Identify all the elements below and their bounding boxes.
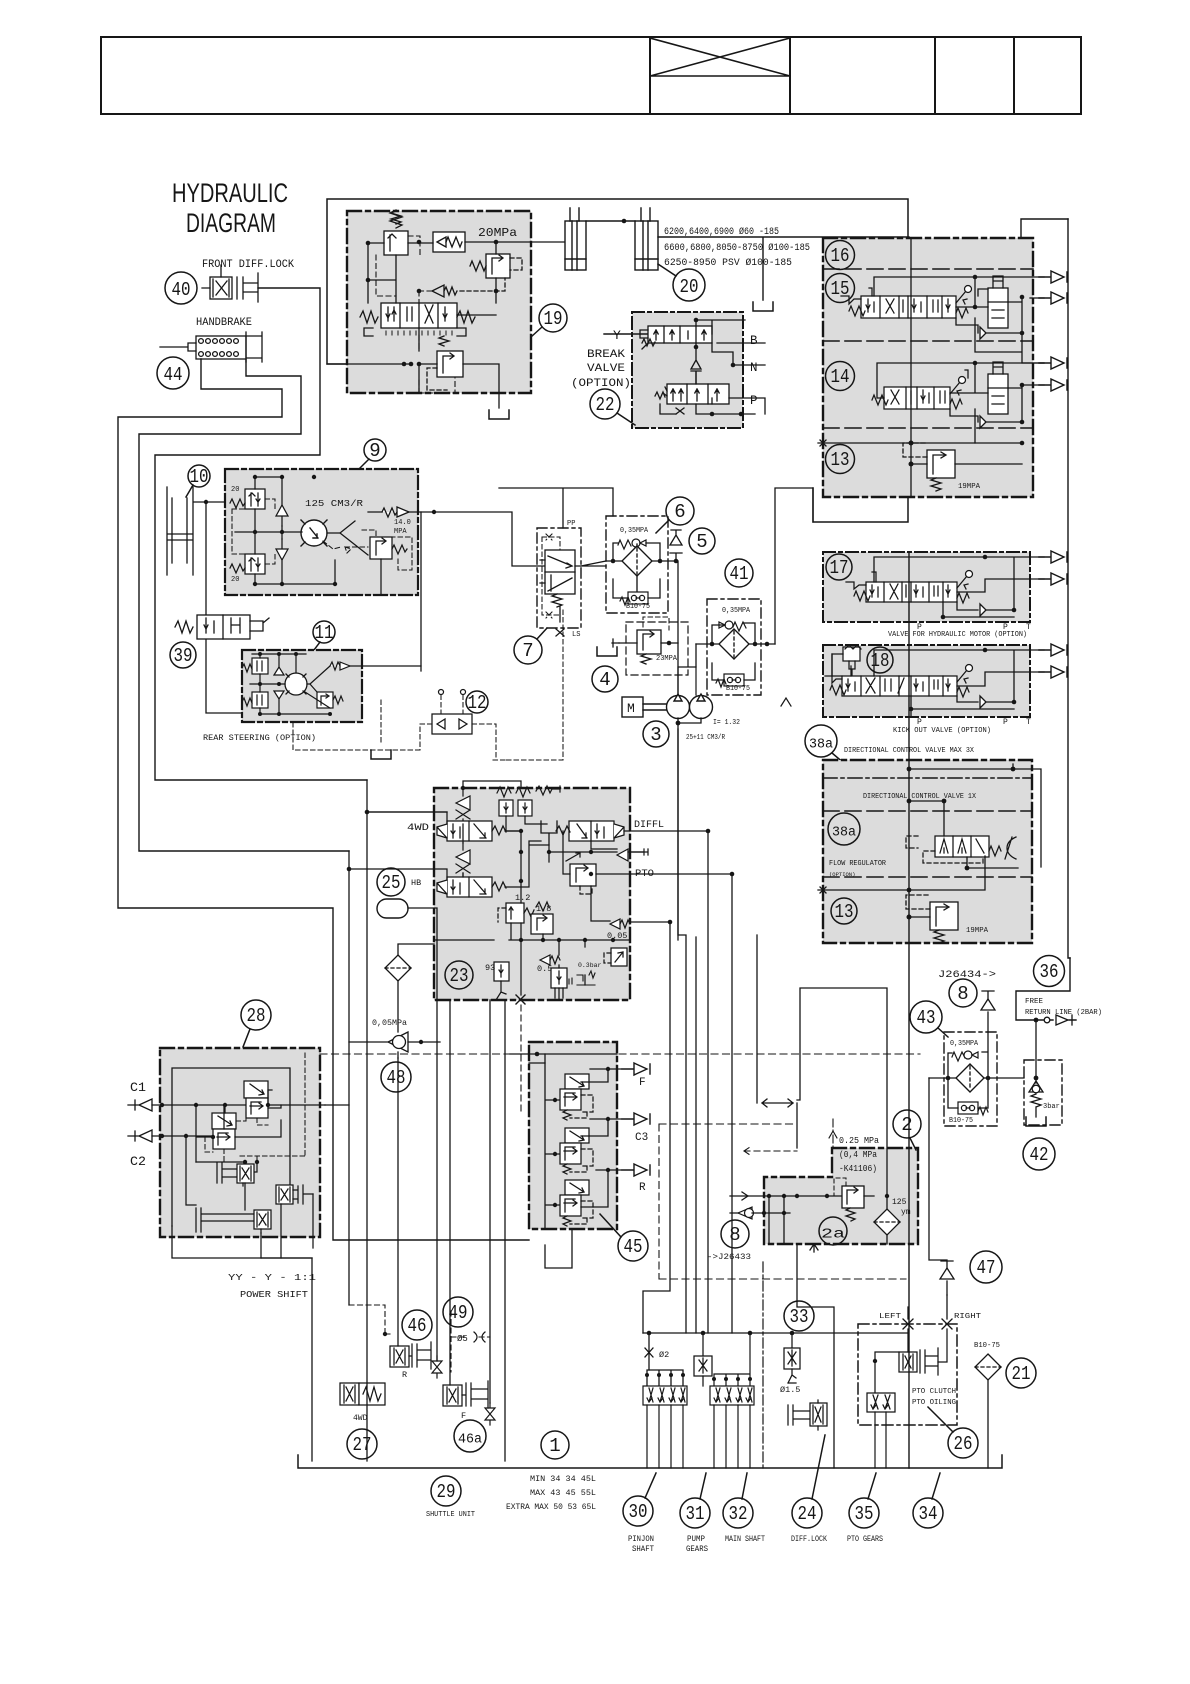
valve 1.2 xyxy=(498,903,534,923)
svg-text:47: 47 xyxy=(977,1257,996,1279)
steering pump circle in 9 xyxy=(301,520,327,546)
dashed divider 2 xyxy=(823,876,1032,878)
relief valve 13 lower xyxy=(906,895,958,943)
filter diamond left of 23 xyxy=(385,944,434,1032)
dashed arrow left xyxy=(744,1147,797,1155)
DIFFL valve xyxy=(556,821,624,841)
pto two clutch xyxy=(867,1393,895,1412)
circle 34 xyxy=(913,1473,943,1528)
label FLOW REGULATOR xyxy=(829,860,886,878)
divider dashed lines xyxy=(823,269,1033,428)
dashed rail from 28 to right xyxy=(320,1053,920,1055)
dashed divider xyxy=(823,810,1032,812)
mid tank in 23 xyxy=(530,821,557,845)
circle 10 with leader xyxy=(186,465,210,497)
solenoid F module xyxy=(443,1381,488,1408)
filter box 43 xyxy=(944,1032,997,1126)
svg-text:PTO CLUTCH: PTO CLUTCH xyxy=(912,1388,956,1396)
pinjon clutch group xyxy=(643,1386,687,1405)
priority valve 7 xyxy=(540,550,575,622)
labels PTO CLUTCH OILING xyxy=(912,1388,956,1407)
solenoid R module xyxy=(390,1342,431,1369)
circle 1 xyxy=(541,1431,569,1459)
gray box 16/15/14/13 xyxy=(823,238,1033,497)
gray big box xyxy=(823,760,1032,943)
eye check 0,05MPa xyxy=(349,1032,440,1058)
free return port xyxy=(1044,1015,1072,1025)
circle 3 xyxy=(643,721,669,747)
left rail in 45 xyxy=(545,1054,572,1268)
pump suction wires xyxy=(678,561,701,940)
circle 38a upper xyxy=(805,725,858,775)
up arrow below 2a xyxy=(810,1244,818,1252)
svg-text:SHAFT: SHAFT xyxy=(632,1545,654,1554)
svg-text:MAX 43 45 55L: MAX 43 45 55L xyxy=(530,1488,596,1498)
junction dots in 23 xyxy=(461,786,615,942)
svg-text:17: 17 xyxy=(830,557,849,579)
valve 1.8 xyxy=(531,902,553,934)
svg-text:PUMP: PUMP xyxy=(687,1535,705,1544)
port C2 xyxy=(128,1130,152,1142)
f feed down xyxy=(449,1000,451,1385)
svg-text:29: 29 xyxy=(437,1481,456,1503)
line 696 xyxy=(695,937,697,1333)
filter diamond 2a xyxy=(874,1209,900,1235)
circle 11 with leader xyxy=(313,621,335,650)
svg-text:7: 7 xyxy=(522,640,533,662)
inner white frame xyxy=(172,1068,290,1226)
svg-text:0.5: 0.5 xyxy=(537,964,552,974)
wire power shift down xyxy=(261,1258,312,1461)
svg-text:27: 27 xyxy=(353,1434,372,1456)
svg-text:6250-8950 PSV Ø100-185: 6250-8950 PSV Ø100-185 xyxy=(664,257,792,268)
check 0.05 xyxy=(610,919,630,929)
relief right in 9 xyxy=(370,537,407,559)
svg-text:2: 2 xyxy=(901,1114,912,1136)
svg-text:Y: Y xyxy=(613,328,621,343)
circle 15 xyxy=(826,274,855,303)
wire port2 xyxy=(1030,297,1044,299)
svg-text:125 CM3/R: 125 CM3/R xyxy=(305,499,364,509)
oil volume table xyxy=(506,1474,596,1512)
svg-text:PTO GEARS: PTO GEARS xyxy=(847,1535,883,1544)
svg-text:6: 6 xyxy=(674,501,685,523)
svg-text:0.25 MPa: 0.25 MPa xyxy=(839,1136,880,1146)
tandem pump circles xyxy=(667,667,713,719)
gray box 23 xyxy=(434,788,630,1000)
priority valve 7 dash-dot box xyxy=(537,528,581,628)
svg-text:35: 35 xyxy=(855,1503,874,1525)
module F xyxy=(560,1074,593,1120)
junction dots 15 xyxy=(973,275,1025,336)
svg-text:33: 33 xyxy=(790,1306,809,1328)
svg-text:3: 3 xyxy=(650,724,661,746)
circle 49 xyxy=(443,1297,473,1327)
title block frame xyxy=(101,37,1081,114)
svg-text:F: F xyxy=(461,1411,466,1421)
junction dots box 11 xyxy=(258,652,332,716)
labels F C3 R xyxy=(635,1077,648,1194)
X mark at bottom border xyxy=(516,995,525,1004)
front diff lock actuator xyxy=(202,265,258,302)
main shaft clutch group xyxy=(714,1333,750,1386)
bowtie plug F xyxy=(485,1403,495,1425)
small check right xyxy=(617,849,644,861)
main directional valve 19 xyxy=(360,303,475,336)
check 0.5 xyxy=(540,955,560,965)
junction dots 28 xyxy=(160,1103,270,1164)
circle 8 upper xyxy=(949,979,977,1007)
svg-text:39: 39 xyxy=(174,645,193,667)
wire front diff lock to nested route 3 xyxy=(155,288,367,780)
svg-text:HB: HB xyxy=(411,878,421,888)
pilot cylinder 14 xyxy=(988,362,1008,414)
svg-text:20: 20 xyxy=(231,576,239,584)
circle 38a lower xyxy=(828,813,860,845)
svg-text:I= 1.32: I= 1.32 xyxy=(713,719,740,727)
wires section 14 xyxy=(877,363,1044,443)
circle 19 with leader xyxy=(531,304,567,337)
svg-text:34: 34 xyxy=(919,1503,938,1525)
feed 505 down xyxy=(504,1000,506,1461)
svg-text:N: N xyxy=(750,361,758,375)
circle 21 xyxy=(1006,1358,1036,1388)
transmission bottom line xyxy=(298,1455,1002,1468)
relief valve upper-left in 19 xyxy=(384,210,408,255)
dashed pilots valve 7 xyxy=(542,534,563,632)
svg-text:19MPA: 19MPA xyxy=(958,483,980,491)
circle 25 xyxy=(377,868,405,896)
port arrows 15 xyxy=(1039,271,1067,283)
svg-text:125: 125 xyxy=(892,1198,907,1207)
bowtie plug R xyxy=(432,1356,442,1378)
svg-text:F: F xyxy=(639,1077,646,1089)
orifice O2 feed xyxy=(645,1333,683,1386)
tank 3bar xyxy=(1026,1117,1046,1126)
svg-text:38a: 38a xyxy=(832,826,856,841)
motor M box xyxy=(622,697,667,717)
cylinder spec text xyxy=(664,226,810,268)
wires section 17 xyxy=(874,557,1044,617)
pilot dashed wires box 19 xyxy=(376,236,455,393)
circle 22 with leader xyxy=(590,389,635,425)
junction dots 14 xyxy=(973,361,1025,425)
directional valve 14 xyxy=(872,370,968,409)
svg-text:FLOW REGULATOR: FLOW REGULATOR xyxy=(829,860,886,868)
port wires F C3 R xyxy=(581,1069,621,1207)
circle 23 xyxy=(445,961,473,989)
svg-text:23MPA: 23MPA xyxy=(656,655,677,663)
svg-text:DIFF.LOCK: DIFF.LOCK xyxy=(791,1535,827,1544)
relief upper in 9 xyxy=(230,489,265,509)
L3 vertical continuation xyxy=(367,780,447,1461)
svg-text:21: 21 xyxy=(1012,1363,1031,1385)
circle 24 xyxy=(792,1435,825,1528)
svg-text:38a: 38a xyxy=(809,738,833,753)
svg-text:10: 10 xyxy=(190,466,209,488)
double arrow xyxy=(762,1099,797,1148)
svg-text:93: 93 xyxy=(485,963,495,973)
svg-text:26: 26 xyxy=(954,1433,973,1455)
svg-text:FREE: FREE xyxy=(1025,998,1043,1006)
svg-text:20: 20 xyxy=(231,486,239,494)
circle 35 xyxy=(849,1473,879,1528)
orifice 05 symbol xyxy=(474,1332,485,1342)
svg-text:P: P xyxy=(917,718,922,727)
0.05 line down xyxy=(643,921,670,1333)
wires in box 9 xyxy=(235,477,382,595)
svg-text:MAIN SHAFT: MAIN SHAFT xyxy=(725,1535,765,1544)
svg-text:FRONT DIFF.LOCK: FRONT DIFF.LOCK xyxy=(202,259,294,271)
svg-text:P: P xyxy=(750,394,758,408)
svg-text:1.2: 1.2 xyxy=(515,893,530,903)
svg-text:45: 45 xyxy=(624,1236,643,1258)
svg-text:15: 15 xyxy=(831,278,850,300)
dashed pilots 28 xyxy=(205,1053,305,1162)
dashed LS line from 7 down-left xyxy=(490,632,563,760)
svg-text:C1: C1 xyxy=(130,1081,146,1095)
svg-text:0.3bar: 0.3bar xyxy=(578,962,602,969)
wires filter 41 xyxy=(696,623,775,680)
svg-text:DIFFL: DIFFL xyxy=(634,820,664,831)
port arrows 14 xyxy=(1039,357,1067,369)
svg-text:0,05MPa: 0,05MPa xyxy=(372,1018,407,1028)
module R xyxy=(560,1180,593,1226)
circle 30 xyxy=(623,1473,656,1526)
circle 46a xyxy=(454,1420,486,1452)
dash-dot pilot above 2a xyxy=(829,1119,837,1148)
dots junctions long wires xyxy=(347,641,735,925)
X cut marks xyxy=(903,1295,952,1329)
svg-text:31: 31 xyxy=(686,1503,705,1525)
svg-text:T: T xyxy=(1026,718,1031,727)
top pilot caps on box 23 xyxy=(497,786,560,816)
directional valve 15 xyxy=(841,286,972,319)
wire cylinder to valve 39 xyxy=(206,502,252,713)
X mark below valve 7 xyxy=(556,629,564,636)
svg-text:B10-75: B10-75 xyxy=(949,1117,973,1125)
steering cylinder 10 xyxy=(167,487,225,575)
svg-text:REAR STEERING (OPTION): REAR STEERING (OPTION) xyxy=(203,733,316,743)
svg-text:BREAK: BREAK xyxy=(587,349,625,361)
C2 rail xyxy=(152,1135,215,1137)
svg-text:PTO OILING: PTO OILING xyxy=(912,1399,956,1407)
circle 44 xyxy=(157,357,189,389)
port arrows F C3 R xyxy=(622,1063,650,1075)
directional valve 17 xyxy=(846,571,973,604)
check cones in 11 xyxy=(274,667,284,699)
gray box 22 xyxy=(632,312,743,428)
svg-text:20: 20 xyxy=(680,276,699,298)
circle 28 with leader xyxy=(241,1000,271,1047)
module C3 xyxy=(560,1128,593,1174)
circle 8 lower xyxy=(721,1220,749,1248)
port labels B N P xyxy=(750,334,758,408)
diamond line down to R xyxy=(397,1058,399,1346)
circle 31 xyxy=(680,1473,710,1528)
svg-text:VALVE: VALVE xyxy=(587,363,625,375)
svg-text:YY - Y - 1:1: YY - Y - 1:1 xyxy=(228,1272,316,1283)
supply arrow into 2a xyxy=(730,1192,842,1200)
manifold feed line xyxy=(643,1332,908,1334)
diffl line down xyxy=(630,831,708,1333)
svg-text:PP: PP xyxy=(567,520,575,528)
clutch actuator 1 xyxy=(217,1161,254,1186)
flow regulator valve 38a xyxy=(906,836,1016,863)
svg-text:40: 40 xyxy=(172,279,191,301)
directional valve 18 xyxy=(825,665,973,698)
svg-text:LEFT: LEFT xyxy=(879,1313,902,1321)
svg-text:14: 14 xyxy=(831,366,850,388)
circle 29 xyxy=(431,1476,461,1506)
wire handbrake port to nested route 1 xyxy=(118,359,529,1240)
wire 11 output right xyxy=(350,666,421,671)
circle 41 xyxy=(725,559,753,587)
svg-text:28: 28 xyxy=(247,1005,266,1027)
svg-text:20MPa: 20MPa xyxy=(478,226,517,240)
pilot cap 18 xyxy=(832,645,861,676)
svg-text:PINJON: PINJON xyxy=(628,1535,654,1544)
pp feed line xyxy=(499,488,613,528)
svg-text:43: 43 xyxy=(917,1007,936,1029)
svg-text:B10-75: B10-75 xyxy=(626,603,650,611)
bypass thermal box in 43 xyxy=(958,1102,988,1115)
svg-text:19: 19 xyxy=(544,308,563,330)
line to 2 box right xyxy=(757,935,887,1196)
wires filter 6 xyxy=(575,543,676,598)
circle 48 xyxy=(381,1062,411,1092)
circle 36 xyxy=(1034,956,1065,987)
Y port wire xyxy=(604,333,648,335)
reducing valve lower xyxy=(212,1113,236,1149)
circle 6 with leader xyxy=(656,497,694,533)
circle 42 xyxy=(1023,1138,1055,1170)
svg-text:41: 41 xyxy=(730,563,749,585)
output wire of 9 to valve 7 xyxy=(409,512,553,566)
relief valve 2a xyxy=(834,1178,864,1221)
svg-text:B10-75: B10-75 xyxy=(974,1342,1000,1350)
svg-text:6200,6400,6900 Ø60 -185: 6200,6400,6900 Ø60 -185 xyxy=(664,226,779,237)
dashed wires module 12 xyxy=(293,695,496,760)
breather check 5 xyxy=(670,530,682,561)
filter diamond 6 xyxy=(622,544,652,595)
wire HB oval to box xyxy=(408,908,437,940)
enclosing boundary top xyxy=(327,199,908,522)
0.3bar restrictor xyxy=(569,971,595,985)
svg-text:B10-75: B10-75 xyxy=(726,685,750,693)
main pressure column xyxy=(908,552,910,1468)
svg-text:3bar: 3bar xyxy=(1043,1103,1060,1111)
eye check 8 xyxy=(730,1207,790,1219)
wires filter 43 xyxy=(929,1032,1024,1260)
check+X module upper left xyxy=(456,788,470,824)
pto line down xyxy=(652,874,732,1333)
wires in box 11 xyxy=(250,654,421,714)
svg-text:23: 23 xyxy=(450,965,469,987)
output check of 11 xyxy=(330,662,350,670)
feed 490 down xyxy=(489,1000,491,1403)
diff lock actuator xyxy=(788,1400,827,1430)
break valve upper 2/2 valve xyxy=(640,326,712,349)
svg-text:P: P xyxy=(917,623,922,632)
junction dots box 9 xyxy=(253,475,436,586)
svg-text:Ø2: Ø2 xyxy=(659,1350,669,1360)
junction dots 2a xyxy=(762,1194,889,1215)
circle 40 xyxy=(165,272,197,304)
wires 28 xyxy=(186,1090,281,1205)
handbrake spring brake actuator xyxy=(160,332,262,362)
dashed pilot below box 23 xyxy=(520,1005,522,1115)
svg-text:4WD: 4WD xyxy=(353,1414,368,1423)
gray box 45 xyxy=(529,1042,617,1229)
right border line xyxy=(1068,219,1070,958)
bypass check top in 6 xyxy=(618,539,646,549)
svg-text:8: 8 xyxy=(729,1224,740,1246)
wires below 28 xyxy=(245,1183,313,1258)
svg-text:9: 9 xyxy=(369,440,380,462)
pto clutch feeds xyxy=(875,1329,947,1393)
svg-text:Ø1.5: Ø1.5 xyxy=(780,1385,800,1395)
svg-text:MPA: MPA xyxy=(394,528,407,536)
L2 vertical continuation xyxy=(348,851,350,1305)
svg-text:46: 46 xyxy=(408,1315,427,1337)
cylinder 20 port wires xyxy=(658,237,909,300)
X plug mark in 22 xyxy=(676,408,684,414)
svg-text:RIGHT: RIGHT xyxy=(954,1313,982,1321)
svg-text:48: 48 xyxy=(387,1067,406,1089)
label 14.0 MPA xyxy=(394,519,411,536)
junction dots 13 xyxy=(909,441,1025,467)
labels 125 ym xyxy=(892,1198,911,1217)
svg-text:25+11 CM3/R: 25+11 CM3/R xyxy=(686,734,725,742)
circle 5 xyxy=(689,528,715,554)
3bar relief box 42 xyxy=(1024,1060,1062,1125)
svg-text:LS: LS xyxy=(572,631,580,639)
output check of 9 xyxy=(382,507,409,517)
circle 46 xyxy=(402,1310,432,1340)
junction dots box 19 xyxy=(366,240,499,367)
svg-text:46a: 46a xyxy=(458,1433,482,1448)
svg-text:C2: C2 xyxy=(130,1155,146,1169)
svg-text:P: P xyxy=(1003,623,1008,632)
circle 12 xyxy=(466,691,488,714)
svg-text:5: 5 xyxy=(696,531,707,553)
svg-text:11: 11 xyxy=(315,622,334,644)
bottom module xyxy=(551,968,567,998)
svg-text:(0,4 MPa: (0,4 MPa xyxy=(839,1150,878,1160)
bypass thermal box in 6 xyxy=(620,592,648,605)
relief right in 11 xyxy=(317,692,343,708)
title block crossed cell xyxy=(650,38,790,76)
svg-text:POWER SHIFT: POWER SHIFT xyxy=(240,1289,308,1300)
circle 45 with leader xyxy=(600,1214,648,1261)
dash-dot internal line xyxy=(823,777,1032,779)
pump suction to transmission xyxy=(678,729,686,1333)
dashed pilot relief 4 xyxy=(643,617,669,630)
svg-text:B: B xyxy=(750,334,758,348)
breather check top xyxy=(981,991,995,1032)
PT labels 18 xyxy=(917,718,1031,727)
wire 11 output up xyxy=(420,512,422,671)
svg-text:4: 4 xyxy=(599,669,610,691)
dashed pilot lines shuttle xyxy=(349,1305,490,1372)
gray box 11 xyxy=(242,650,362,722)
svg-text:RETURN LINE (2BAR): RETURN LINE (2BAR) xyxy=(1025,1009,1102,1017)
pto gears vertical xyxy=(797,1244,834,1468)
svg-text:-K41106): -K41106) xyxy=(839,1164,877,1174)
pump circle in 11 xyxy=(285,673,307,695)
svg-text:32: 32 xyxy=(729,1503,748,1525)
